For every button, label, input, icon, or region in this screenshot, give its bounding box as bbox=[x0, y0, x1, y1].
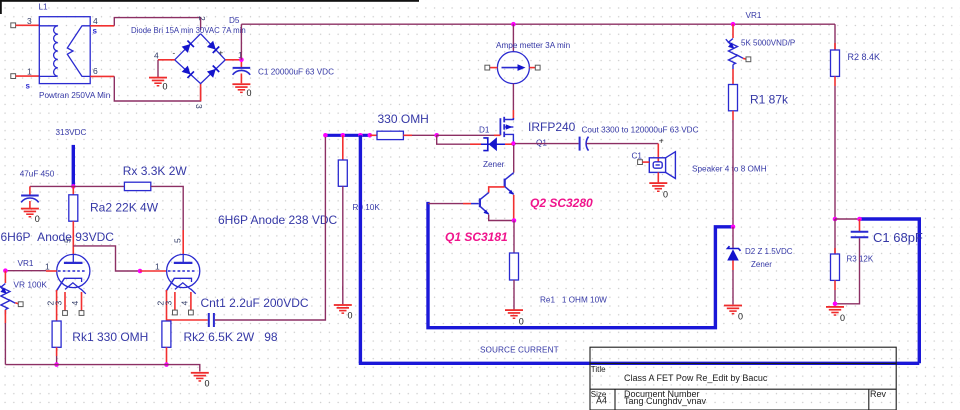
tube V1 pin4 nc square bbox=[79, 311, 84, 316]
mosfet Q1 IRFP240 bbox=[500, 117, 513, 143]
thick blue right riser bbox=[918, 218, 921, 364]
wire bridge right stub bbox=[225, 59, 241, 61]
ground under C1 bbox=[232, 83, 250, 93]
ground under 47uF bbox=[21, 208, 39, 218]
svg-text:VR 100K: VR 100K bbox=[13, 280, 47, 290]
ground cathode bus bbox=[191, 372, 209, 382]
resistor R2 bbox=[831, 50, 840, 76]
wire node to 47uF cap bbox=[30, 185, 73, 187]
svg-text:Q1 SC3181: Q1 SC3181 bbox=[445, 230, 508, 244]
ground under R3 bbox=[826, 306, 844, 316]
potentiometer VR arrow head bbox=[0, 288, 6, 294]
svg-text:Title: Title bbox=[591, 365, 606, 374]
wire D2 node to zener bbox=[732, 227, 734, 248]
tube V2 pin2 wire bbox=[166, 290, 168, 321]
ammeter left stub bbox=[490, 67, 498, 69]
ammeter M1 bbox=[497, 52, 529, 84]
speaker port square bbox=[638, 160, 643, 165]
junction Rk2 bottom bbox=[164, 362, 169, 367]
tube V1 pin3 nc square bbox=[63, 311, 68, 316]
transistor Q1 bbox=[479, 193, 489, 215]
svg-text:Ampe metter 3A min: Ampe metter 3A min bbox=[496, 41, 571, 50]
wire gate red stub bbox=[494, 134, 500, 136]
wire R3 bottom stub bbox=[834, 280, 836, 290]
svg-text:A4: A4 bbox=[596, 396, 607, 406]
svg-text:5: 5 bbox=[173, 238, 183, 243]
tube V2 pin1 wire bbox=[140, 270, 167, 272]
svg-text:6: 6 bbox=[93, 66, 98, 76]
svg-text:6H6P Anode 93VDC: 6H6P Anode 93VDC bbox=[1, 230, 115, 244]
wire into speaker bbox=[657, 144, 659, 158]
junction mosfet source bbox=[511, 141, 516, 146]
wire Re1 to ground bbox=[513, 280, 515, 310]
junction C1 node left bbox=[833, 217, 838, 222]
Q1 base lead blue bbox=[471, 203, 479, 205]
resistor Rg wire from bus bbox=[342, 135, 344, 160]
wire speaker to ground bbox=[657, 172, 659, 182]
tube V2 bbox=[166, 254, 200, 293]
wire Rk1 bus maroon bbox=[56, 356, 58, 365]
thick blue bus segment top bbox=[324, 134, 370, 137]
wire Rg to ground bbox=[342, 286, 344, 304]
svg-text:R2 8.4K: R2 8.4K bbox=[848, 52, 881, 62]
speaker LS1 bbox=[649, 152, 675, 179]
thick blue bottom bus bbox=[359, 362, 920, 365]
wire R3 top stub bbox=[834, 248, 836, 254]
wire V1 grid to VR1 bbox=[5, 270, 46, 272]
wire pin6 to bridge bottom bbox=[114, 76, 200, 101]
junction bus blue drop bbox=[358, 133, 363, 138]
svg-text:0: 0 bbox=[205, 379, 210, 389]
svg-text:0: 0 bbox=[663, 190, 668, 200]
tube V1 pin1 wire bbox=[46, 270, 57, 272]
tube V2 pin4 nc square bbox=[189, 310, 194, 315]
svg-text:0: 0 bbox=[35, 214, 40, 224]
svg-text:SOURCE CURRENT: SOURCE CURRENT bbox=[480, 346, 559, 355]
svg-text:0: 0 bbox=[163, 82, 168, 92]
resistor Rx bbox=[124, 182, 150, 190]
svg-text:D1: D1 bbox=[479, 126, 490, 135]
wire zener branch bbox=[437, 135, 470, 144]
svg-text:6H6P Anode 238 VDC: 6H6P Anode 238 VDC bbox=[218, 213, 338, 227]
svg-text:VR1: VR1 bbox=[18, 259, 34, 268]
wire Cout to speaker bbox=[587, 143, 659, 145]
svg-text:s: s bbox=[26, 82, 31, 91]
ground under Re1 bbox=[505, 309, 523, 319]
ammeter arrow head bbox=[518, 64, 526, 71]
svg-text:Q2 SC3280: Q2 SC3280 bbox=[530, 196, 593, 210]
thick blue source-current box bbox=[428, 202, 732, 328]
wire C1 top lead bbox=[859, 219, 861, 231]
junction emitters bbox=[512, 218, 517, 223]
svg-text:-: - bbox=[173, 49, 176, 58]
wire up to HT bus bbox=[240, 24, 242, 60]
wire Q1 collector to Q2 base bbox=[489, 187, 505, 193]
wire R1 down stub bbox=[732, 111, 734, 120]
svg-text:Rk1 330 OMH: Rk1 330 OMH bbox=[72, 330, 148, 344]
frame border top edge bbox=[0, 0, 419, 2]
junction 313VDC node bbox=[71, 184, 76, 189]
wire cathode to Cnt1 bbox=[167, 319, 208, 321]
tube V2 pin3 nc square bbox=[173, 310, 178, 315]
bus stub 313VDC thick blue bbox=[72, 145, 75, 187]
ground under D2 bbox=[724, 305, 742, 315]
resistor Ra2 bbox=[69, 195, 78, 221]
wire pin4 stub bbox=[90, 25, 114, 27]
wire pot to R1 bbox=[732, 69, 734, 85]
wire node to Ra2 bbox=[72, 186, 74, 194]
resistor 330 OMH bbox=[377, 131, 403, 139]
speaker port stub bbox=[642, 161, 649, 163]
wire Cnt1 to grid feed riser bbox=[215, 137, 326, 320]
tube V1 pin4 wire bbox=[81, 292, 83, 311]
tube V1 pin3 wire bbox=[64, 292, 66, 311]
pot wiper stub bbox=[743, 57, 746, 60]
wire Q2 collector bbox=[513, 145, 515, 173]
capacitor Cnt1 bbox=[209, 313, 214, 327]
svg-text:+: + bbox=[219, 49, 224, 58]
ammeter right port square bbox=[535, 65, 540, 70]
wire VR1 top lead bbox=[732, 24, 734, 38]
capacitor C1 68pF bbox=[851, 232, 869, 238]
svg-text:4: 4 bbox=[70, 301, 80, 306]
wire tube2 anode stub bbox=[182, 230, 184, 255]
wire bus corner to R2 bbox=[834, 24, 836, 50]
tube V1 pin2 wire bbox=[56, 290, 58, 321]
wire VR bottom bbox=[4, 323, 6, 365]
svg-text:C1 68pF: C1 68pF bbox=[873, 230, 923, 245]
wire D2 ground maroon bbox=[732, 270, 734, 305]
junction HT bus / ammeter bbox=[511, 22, 516, 27]
wire Ra2 to tube anode bbox=[72, 221, 74, 255]
junction D2 node bbox=[731, 225, 736, 230]
thick blue top link to C1 68pF node bbox=[860, 217, 921, 220]
wire R3 top bbox=[834, 219, 836, 254]
junction bus left bbox=[323, 133, 328, 138]
resistor R1 bbox=[729, 85, 738, 111]
svg-text:0: 0 bbox=[738, 312, 743, 322]
svg-text:Re1 1 OHM 10W: Re1 1 OHM 10W bbox=[540, 296, 607, 305]
transformer T1 body bbox=[39, 17, 90, 84]
ground under speaker bbox=[649, 182, 667, 192]
svg-text:5K 5000VND/P: 5K 5000VND/P bbox=[741, 39, 795, 48]
wire R1 to D2 node bbox=[732, 120, 734, 227]
svg-text:3: 3 bbox=[54, 301, 64, 306]
junction VR1 node bbox=[3, 268, 8, 273]
tube V1 bbox=[56, 254, 90, 293]
svg-text:4: 4 bbox=[93, 16, 98, 26]
svg-text:Rev: Rev bbox=[870, 389, 887, 399]
junction bridge output bbox=[239, 58, 244, 63]
svg-text:s: s bbox=[93, 27, 98, 36]
capacitor 47uF bbox=[21, 186, 39, 208]
HT bus top wire bbox=[241, 23, 835, 25]
svg-text:Zener: Zener bbox=[483, 160, 505, 169]
pot wiper stub bbox=[15, 303, 18, 304]
svg-text:D2 Z 1.5VDC: D2 Z 1.5VDC bbox=[745, 247, 793, 256]
wire 330 resistor right bbox=[403, 134, 412, 136]
wire Rk1 to bus bbox=[56, 347, 58, 356]
svg-text:Ra2 22K 4W: Ra2 22K 4W bbox=[90, 201, 159, 215]
wire bridge bottom stub bbox=[200, 84, 202, 101]
svg-text:2: 2 bbox=[197, 16, 207, 21]
svg-text:Zener: Zener bbox=[751, 260, 772, 269]
wire VR1 top lead bbox=[4, 271, 6, 283]
svg-text:Rk2 6.5K 2W 98: Rk2 6.5K 2W 98 bbox=[184, 330, 278, 344]
svg-text:5: 5 bbox=[63, 238, 73, 243]
wire zener right stub bbox=[505, 143, 512, 145]
svg-text:R3 12K: R3 12K bbox=[847, 255, 874, 264]
frame border left edge bbox=[0, 0, 2, 14]
wire R2 top stub bbox=[834, 43, 836, 50]
wire box to Q1 base bbox=[428, 203, 463, 205]
junction VR1 tap bbox=[731, 22, 736, 27]
resistor Rk2 bbox=[162, 321, 171, 347]
wire to Re1 bbox=[513, 221, 515, 254]
wire zener left stub bbox=[470, 143, 482, 145]
mosfet arrow bbox=[506, 124, 513, 129]
svg-text:3: 3 bbox=[194, 104, 204, 109]
wire pin3 bbox=[16, 24, 40, 26]
port square pin1 bbox=[11, 74, 16, 79]
wire bus to 330 resistor bbox=[370, 134, 377, 136]
potentiometer VR1 arrow head bbox=[728, 43, 734, 49]
diode bridge D5 bbox=[175, 34, 226, 84]
svg-text:Powtran 250VA Min: Powtran 250VA Min bbox=[39, 91, 111, 100]
junction C1 node right bbox=[857, 217, 862, 222]
wire Q1 base red segment bbox=[463, 203, 471, 205]
junction bus right end bbox=[368, 133, 373, 138]
thick blue feedback bus vertical bbox=[359, 135, 362, 363]
svg-text:C1: C1 bbox=[632, 152, 643, 161]
pot wiper square bbox=[18, 302, 23, 307]
wire R3 to ground node bbox=[834, 290, 836, 304]
ammeter right stub bbox=[529, 67, 535, 69]
svg-text:VR1: VR1 bbox=[746, 11, 762, 20]
ground under Rg bbox=[334, 304, 352, 314]
zener diode D1 bbox=[481, 137, 505, 151]
resistor Rg bbox=[338, 160, 347, 186]
wire pin4 to bridge top bbox=[114, 18, 200, 30]
wire VR bottom red bbox=[4, 310, 6, 323]
junction bus Rg tap bbox=[341, 133, 346, 138]
capacitor Cout bbox=[580, 137, 589, 151]
resistor Re1 bbox=[510, 253, 519, 280]
port square pin3 bbox=[11, 23, 16, 28]
tube V2 pin3 wire bbox=[174, 292, 176, 310]
wire C1 node link bbox=[835, 218, 860, 220]
svg-text:L1: L1 bbox=[39, 3, 49, 12]
svg-text:0: 0 bbox=[519, 317, 524, 327]
wire to gate junction bbox=[412, 134, 437, 136]
title block frame bbox=[590, 347, 896, 410]
potentiometer VR 100K bbox=[0, 284, 15, 315]
svg-text:Speaker 4 to 8 OMH: Speaker 4 to 8 OMH bbox=[692, 165, 767, 174]
wire C1 bottom lead bbox=[837, 238, 860, 303]
svg-text:Class A FET Pow Re_Edit by Bac: Class A FET Pow Re_Edit by Bacuc bbox=[624, 373, 768, 383]
transistor Q2 bbox=[504, 173, 514, 195]
svg-text:3: 3 bbox=[164, 301, 174, 306]
svg-text:R0 10K: R0 10K bbox=[353, 203, 381, 212]
svg-text:Cnt1 2.2uF 200VDC: Cnt1 2.2uF 200VDC bbox=[201, 296, 309, 310]
tube V2 pin4 wire bbox=[190, 292, 192, 310]
junction coupling node bbox=[138, 269, 143, 274]
wire Rk2 to bus bbox=[166, 347, 168, 364]
svg-text:Rx 3.3K 2W: Rx 3.3K 2W bbox=[123, 164, 188, 178]
svg-text:D5: D5 bbox=[229, 16, 240, 25]
junction gate node bbox=[434, 133, 439, 138]
svg-text:Cout 3300 to 120000uF 63 VDC: Cout 3300 to 120000uF 63 VDC bbox=[582, 125, 699, 134]
svg-text:47uF 450: 47uF 450 bbox=[20, 170, 55, 179]
svg-text:4: 4 bbox=[180, 301, 190, 306]
wire Rg long bbox=[342, 186, 344, 290]
wire ammeter to mosfet drain bbox=[512, 84, 514, 110]
ammeter left port square bbox=[485, 65, 490, 70]
svg-text:0: 0 bbox=[348, 311, 353, 321]
junction Rk1 bottom bbox=[54, 362, 59, 367]
capacitor C1 20000uF bbox=[233, 62, 251, 83]
resistor R3 bbox=[831, 254, 840, 280]
svg-text:Tang Cunghdv_vnav: Tang Cunghdv_vnav bbox=[624, 396, 707, 406]
wire D2 to ground bbox=[732, 261, 734, 271]
zener diode D2 bbox=[727, 246, 740, 260]
wire pin1 bbox=[16, 75, 40, 77]
wire gate node to mosfet gate bbox=[437, 134, 494, 136]
svg-text:C1 20000uF 63 VDC: C1 20000uF 63 VDC bbox=[258, 68, 334, 77]
wire node4 stub bbox=[158, 59, 175, 61]
cathode ground bus bbox=[5, 365, 199, 372]
wire R2 bottom stub bbox=[834, 76, 836, 86]
pot wiper square bbox=[746, 57, 751, 62]
wire bus to ammeter bbox=[512, 24, 514, 52]
resistor Rk1 bbox=[52, 321, 61, 347]
svg-text:IRFP240: IRFP240 bbox=[528, 120, 576, 134]
svg-text:313VDC: 313VDC bbox=[56, 128, 87, 137]
wire Rx branch bbox=[73, 185, 124, 187]
wire Q2 emitter down bbox=[513, 195, 515, 221]
svg-text:R1 87k: R1 87k bbox=[750, 92, 789, 106]
svg-text:1: 1 bbox=[27, 67, 32, 77]
svg-text:0: 0 bbox=[247, 88, 252, 98]
wire V1 anode coupling jog bbox=[73, 246, 140, 271]
wire Q1 emitter down bbox=[489, 215, 515, 221]
svg-text:0: 0 bbox=[840, 313, 845, 323]
junction R3 ground node bbox=[833, 302, 838, 307]
svg-text:3: 3 bbox=[27, 16, 32, 26]
wire R2 to C1 node bbox=[834, 86, 836, 219]
svg-text:330 OMH: 330 OMH bbox=[378, 112, 429, 126]
wire source node right bbox=[515, 143, 579, 145]
wire drain stub bbox=[512, 110, 514, 119]
ground node4 bbox=[149, 77, 167, 87]
wire node4 down bbox=[157, 60, 159, 77]
wire Rx to tube2 anode bbox=[151, 186, 183, 230]
svg-text:1: 1 bbox=[155, 262, 160, 272]
svg-text:Diode Bri 15A min 30VAC 7A min: Diode Bri 15A min 30VAC 7A min bbox=[131, 26, 246, 35]
potentiometer VR1 5K bbox=[726, 39, 743, 70]
wire pin6 stub bbox=[90, 75, 114, 77]
svg-text:+: + bbox=[659, 136, 664, 146]
